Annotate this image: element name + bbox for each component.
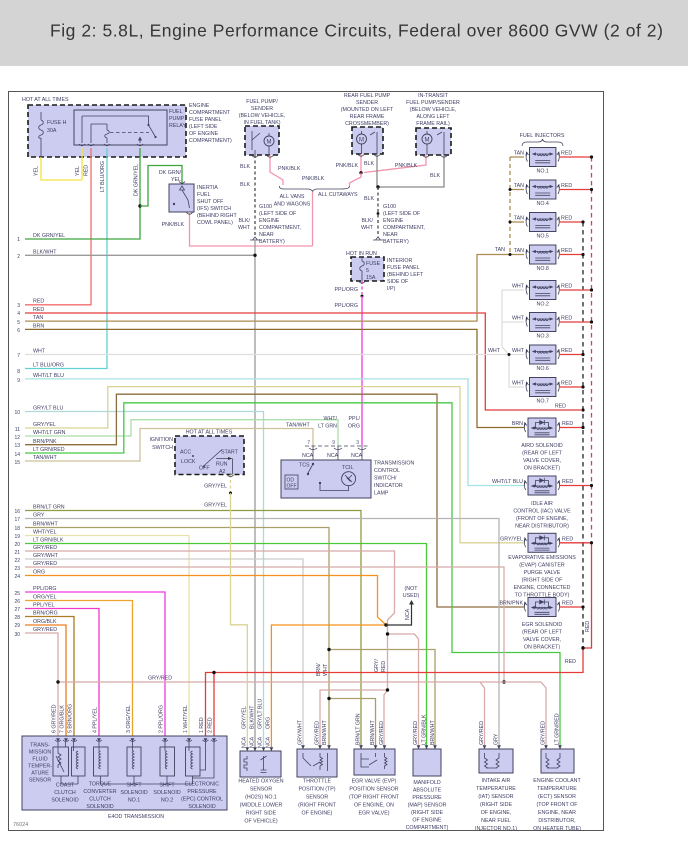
- svg-text:(RIGHT FRONT: (RIGHT FRONT: [298, 803, 337, 809]
- relay internals: coil and switch: [82, 116, 149, 143]
- svg-text:ORG/BLK: ORG/BLK: [33, 619, 57, 625]
- svg-text:NCA: NCA: [351, 453, 363, 459]
- svg-text:FUEL: FUEL: [169, 109, 183, 115]
- svg-text:28: 28: [14, 615, 20, 621]
- wire 29 ORG/BLK to transmission pin 7: [25, 625, 66, 742]
- svg-text:WHT: WHT: [323, 663, 329, 676]
- svg-text:NEAR DISTRIBUTOR): NEAR DISTRIBUTOR): [515, 524, 569, 530]
- svg-text:PNK/BLK: PNK/BLK: [302, 176, 325, 182]
- svg-text:FUEL PUMP/: FUEL PUMP/: [246, 99, 278, 105]
- svg-text:PPL/ORG: PPL/ORG: [33, 586, 57, 592]
- NCA not used stub: [386, 603, 412, 625]
- svg-text:OF ENGINE: OF ENGINE: [189, 131, 219, 137]
- svg-text:ENGINE COOLANT: ENGINE COOLANT: [533, 778, 581, 784]
- AIRD red out: [560, 427, 583, 429]
- svg-text:A2: A2: [219, 469, 226, 475]
- svg-text:TEMPERATURE: TEMPERATURE: [537, 786, 577, 792]
- svg-text:IN FUEL TANK): IN FUEL TANK): [244, 120, 281, 126]
- EGR solenoid red out: [560, 606, 583, 608]
- wire RED relay pin down: [25, 148, 91, 305]
- interior fuse panel box fuse 5: [351, 257, 384, 281]
- svg-text:(BEHIND LEFT: (BEHIND LEFT: [387, 272, 424, 278]
- svg-text:ALL VANS: ALL VANS: [280, 194, 305, 200]
- inertia switch internals: [180, 186, 190, 208]
- svg-text:START: START: [221, 450, 239, 456]
- fuel injectors brace: [522, 139, 563, 146]
- svg-text:3: 3: [356, 440, 359, 446]
- svg-text:NCA: NCA: [327, 453, 339, 459]
- junction dot pink: [359, 171, 362, 174]
- svg-text:WHT/YEL: WHT/YEL: [33, 530, 57, 536]
- svg-text:(REAR OF LEFT: (REAR OF LEFT: [522, 451, 562, 457]
- ORG junction dot: [384, 623, 387, 626]
- diagram border frame: [9, 92, 604, 831]
- junction dot black: [376, 185, 379, 188]
- svg-text:BRN/LT GRN: BRN/LT GRN: [356, 713, 362, 745]
- svg-text:M: M: [359, 138, 364, 144]
- wire 18 BRN/WHT signal return net: [25, 528, 435, 750]
- svg-text:RED: RED: [33, 299, 44, 305]
- svg-text:YEL: YEL: [34, 166, 40, 176]
- svg-text:RED: RED: [561, 284, 572, 290]
- connector arcs at component pins: [179, 155, 447, 477]
- E4OD transmission box: [22, 736, 227, 810]
- svg-text:LT GRN/RED: LT GRN/RED: [33, 447, 65, 453]
- svg-text:COMPARTMENT,: COMPARTMENT,: [383, 225, 425, 231]
- svg-text:ENGINE, NEAR: ENGINE, NEAR: [538, 810, 576, 816]
- header bar: [0, 0, 688, 66]
- svg-text:GRY/RED: GRY/RED: [315, 721, 321, 745]
- svg-text:YEL: YEL: [75, 166, 81, 176]
- IAC red out: [560, 485, 592, 487]
- svg-text:TEMPERATURE: TEMPERATURE: [476, 786, 516, 792]
- wire 7 WHT to injector WHT bus: [25, 354, 509, 356]
- sender float symbol: [252, 131, 260, 150]
- inertia fuel shut off switch box: [169, 184, 194, 212]
- svg-text:76024: 76024: [13, 822, 28, 828]
- svg-text:11: 11: [15, 427, 20, 433]
- TCIL lamp: [342, 472, 356, 486]
- svg-text:BLK/WHT: BLK/WHT: [33, 250, 57, 256]
- svg-text:TCIL: TCIL: [342, 465, 354, 471]
- GRY/YEL wire down to HO2S: [231, 493, 248, 751]
- TCS pin arcs: [309, 448, 366, 450]
- svg-text:ORG: ORG: [266, 717, 272, 729]
- svg-text:CLUTCH: CLUTCH: [54, 790, 76, 796]
- wire 21 GRY/RED to TP/EGR/MAP sensors: [25, 551, 419, 749]
- svg-text:ON BRACKET): ON BRACKET): [524, 466, 560, 472]
- wire 10 GRY/LT BLU to HO2S: [25, 412, 264, 752]
- svg-text:(MAP) SENSOR: (MAP) SENSOR: [408, 803, 447, 809]
- svg-text:WHT: WHT: [512, 284, 525, 290]
- svg-text:IGNITION: IGNITION: [149, 437, 173, 443]
- wire 22 GRY/WHT to TP sensor: [25, 559, 303, 749]
- GRY/RED junction dots: [386, 688, 389, 691]
- svg-text:INJECTOR NO.1): INJECTOR NO.1): [475, 826, 517, 832]
- svg-text:TEMPER-: TEMPER-: [28, 764, 52, 770]
- svg-text:15: 15: [14, 460, 20, 466]
- svg-text:PPL/: PPL/: [349, 416, 361, 422]
- wire 30 GRY/RED to transmission pin 6 and rail: [25, 633, 546, 749]
- svg-text:2: 2: [17, 254, 20, 260]
- svg-text:(IAT) SENSOR: (IAT) SENSOR: [478, 794, 513, 800]
- svg-text:3 ORG/YEL: 3 ORG/YEL: [126, 705, 132, 733]
- svg-text:SOLENOID: SOLENOID: [86, 804, 114, 810]
- svg-text:BRN/WHT: BRN/WHT: [33, 522, 58, 528]
- TCS lever: [308, 464, 313, 473]
- wire 11 GRY/YEL to EVAP valve: [25, 387, 524, 543]
- svg-text:MANIFOLD: MANIFOLD: [413, 780, 441, 786]
- svg-text:(NOT: (NOT: [405, 586, 419, 592]
- injector NO.4 red out: [559, 189, 592, 191]
- svg-text:RED: RED: [561, 316, 572, 322]
- svg-text:RED: RED: [84, 165, 90, 176]
- svg-text:13: 13: [14, 443, 20, 449]
- svg-text:GRY/RED: GRY/RED: [479, 721, 485, 745]
- svg-text:22: 22: [14, 558, 20, 564]
- svg-text:BRN/: BRN/: [316, 663, 322, 676]
- svg-text:RED: RED: [561, 183, 572, 189]
- svg-text:RED: RED: [562, 421, 573, 427]
- svg-text:5: 5: [366, 268, 369, 274]
- svg-text:WHT/LT GRN: WHT/LT GRN: [33, 430, 66, 436]
- svg-text:(HO2S) NO.1: (HO2S) NO.1: [245, 795, 277, 801]
- injector NO.7 red out: [559, 386, 583, 388]
- TP internals potentiometer: [303, 753, 328, 771]
- svg-text:TCS: TCS: [299, 463, 310, 469]
- svg-text:CONVERTER: CONVERTER: [83, 789, 116, 795]
- svg-text:FUSE: FUSE: [366, 261, 381, 267]
- svg-text:LT GRN/BLK: LT GRN/BLK: [422, 714, 428, 745]
- svg-text:GRY/YEL: GRY/YEL: [33, 422, 56, 428]
- svg-text:SENSOR: SENSOR: [250, 787, 273, 793]
- svg-text:BRN: BRN: [512, 421, 523, 427]
- svg-text:REAR FUEL PUMP: REAR FUEL PUMP: [344, 93, 391, 99]
- svg-text:IDLE AIR: IDLE AIR: [531, 501, 553, 507]
- left wire name labels: [33, 233, 66, 633]
- svg-text:7: 7: [307, 440, 310, 446]
- svg-text:LOCK: LOCK: [181, 459, 196, 465]
- in-transit sender box: [416, 128, 451, 155]
- injector NO.1: [526, 148, 560, 167]
- svg-text:ENGINE: ENGINE: [189, 103, 210, 109]
- svg-text:EVAPORATIVE EMISSIONS: EVAPORATIVE EMISSIONS: [508, 555, 576, 561]
- EGR sensor internals: [361, 753, 387, 769]
- svg-text:NO.5: NO.5: [537, 234, 549, 240]
- svg-text:RED: RED: [561, 216, 572, 222]
- svg-text:BLK: BLK: [430, 173, 440, 179]
- svg-text:25: 25: [14, 591, 20, 597]
- wire 28 BRN/ORG to transmission pin 5: [25, 617, 74, 743]
- svg-text:SHUT OFF: SHUT OFF: [197, 199, 224, 205]
- wire 4 RED to black bus via right side: [25, 313, 581, 410]
- ground symbol G100 left: [250, 237, 260, 240]
- svg-text:(FRONT OF ENGINE,: (FRONT OF ENGINE,: [516, 516, 568, 522]
- svg-text:TAN: TAN: [33, 315, 43, 321]
- in-transit motor M: [422, 134, 432, 144]
- fuse H symbol: [39, 112, 44, 157]
- svg-text:AIRD SOLENOID: AIRD SOLENOID: [521, 443, 563, 449]
- svg-text:10: 10: [14, 410, 20, 416]
- svg-text:ON HEATER TUBE): ON HEATER TUBE): [533, 826, 581, 832]
- ignition switch GRY/YEL output: [230, 475, 232, 494]
- svg-text:COMPARTMENT): COMPARTMENT): [406, 825, 449, 831]
- svg-text:POSITION (TP): POSITION (TP): [298, 787, 335, 793]
- svg-text:NO.6: NO.6: [537, 366, 549, 372]
- svg-text:TAN: TAN: [514, 151, 524, 157]
- svg-text:DK GRN/YEL: DK GRN/YEL: [134, 164, 140, 196]
- svg-text:WHT: WHT: [512, 381, 525, 387]
- svg-text:RED: RED: [562, 536, 573, 542]
- svg-text:GRY/RED: GRY/RED: [33, 561, 57, 567]
- wire 16 BRN/LT GRN to EGR position sensor: [25, 511, 361, 750]
- svg-text:8: 8: [17, 369, 20, 375]
- svg-text:GRY: GRY: [33, 513, 45, 519]
- svg-text:(EPC) CONTROL: (EPC) CONTROL: [181, 797, 223, 803]
- black dashed bus: [582, 222, 584, 648]
- svg-text:30: 30: [14, 632, 20, 638]
- svg-text:SOLENOID: SOLENOID: [120, 790, 148, 796]
- svg-text:OFF: OFF: [287, 484, 297, 490]
- transmission control switch box: [281, 460, 371, 498]
- svg-text:GRY/RED: GRY/RED: [413, 721, 419, 745]
- svg-text:PNK/BLK: PNK/BLK: [278, 166, 301, 172]
- svg-text:GRY/YEL: GRY/YEL: [204, 503, 227, 509]
- svg-text:SENDER: SENDER: [251, 106, 273, 112]
- svg-text:RUN: RUN: [216, 462, 228, 468]
- ignition switch dashed box: [175, 436, 244, 475]
- svg-text:CONTROL: CONTROL: [374, 468, 400, 474]
- svg-text:PRESSURE: PRESSURE: [187, 789, 217, 795]
- svg-text:(LEFT SIDE OF: (LEFT SIDE OF: [259, 211, 297, 217]
- injector NO.2: [526, 281, 560, 300]
- svg-text:LT GRN/RED: LT GRN/RED: [555, 713, 561, 745]
- svg-text:NEAR FUEL: NEAR FUEL: [481, 818, 511, 824]
- svg-text:M: M: [425, 138, 430, 144]
- injector NO.6 red out: [559, 354, 583, 356]
- svg-text:BATTERY): BATTERY): [383, 239, 409, 245]
- svg-text:LT GRN: LT GRN: [318, 424, 337, 430]
- svg-text:SENSOR: SENSOR: [306, 795, 329, 801]
- svg-text:RED: RED: [381, 661, 387, 672]
- svg-text:WHT: WHT: [512, 348, 525, 354]
- svg-text:FLUID: FLUID: [32, 757, 47, 763]
- svg-text:INTAKE AIR: INTAKE AIR: [482, 778, 511, 784]
- svg-text:ORG: ORG: [33, 570, 45, 576]
- injector NO.8: [526, 245, 560, 264]
- wire 20 LT GRN/BLK to MAP sensor: [25, 544, 427, 750]
- svg-text:(RIGHT SIDE: (RIGHT SIDE: [480, 802, 512, 808]
- svg-text:BATTERY): BATTERY): [259, 239, 285, 245]
- svg-text:GRY/LT BLU: GRY/LT BLU: [258, 699, 264, 729]
- svg-text:G100: G100: [383, 204, 396, 210]
- svg-text:SOLENOID: SOLENOID: [188, 804, 216, 810]
- svg-text:GRY/YEL: GRY/YEL: [204, 484, 227, 490]
- EVAP red out: [560, 542, 592, 544]
- svg-text:(IFS) SWITCH: (IFS) SWITCH: [197, 206, 231, 212]
- svg-text:SOLENOID: SOLENOID: [51, 798, 79, 804]
- svg-text:BRN/WHT: BRN/WHT: [322, 720, 328, 745]
- svg-text:LAMP: LAMP: [374, 491, 389, 497]
- svg-text:WHT: WHT: [512, 316, 525, 322]
- svg-text:RED: RED: [561, 151, 572, 157]
- junction dot on DK GRN/YEL: [138, 204, 141, 207]
- shift solenoid no2 element: [160, 747, 175, 776]
- relay pin chevrons: [79, 144, 143, 146]
- svg-text:GRY/RED: GRY/RED: [541, 721, 547, 745]
- svg-text:26: 26: [14, 599, 20, 605]
- wire 25 PPL/ORG to transmission pin 2: [25, 592, 165, 742]
- svg-text:NO.3: NO.3: [537, 334, 549, 340]
- svg-text:RED: RED: [562, 479, 573, 485]
- svg-text:TAN: TAN: [514, 248, 524, 254]
- svg-text:(RIGHT SIDE: (RIGHT SIDE: [411, 810, 443, 816]
- svg-text:PPL/ORG: PPL/ORG: [334, 287, 358, 293]
- svg-text:ATURE: ATURE: [31, 771, 49, 777]
- svg-text:(REAR OF LEFT: (REAR OF LEFT: [522, 630, 562, 636]
- wire 27 PPL/YEL to transmission pin 4: [25, 609, 99, 743]
- svg-text:(RIGHT SIDE OF: (RIGHT SIDE OF: [522, 578, 564, 584]
- svg-text:FUSE PANEL: FUSE PANEL: [387, 265, 420, 271]
- wire 23 GRY/RED to GRY/RED rail: [25, 567, 504, 682]
- svg-text:POSITION SENSOR: POSITION SENSOR: [349, 787, 398, 793]
- svg-text:OF ENGINE, ON: OF ENGINE, ON: [354, 803, 394, 809]
- wire DK GRN/YEL relay pin down to wire 1: [25, 148, 140, 239]
- svg-text:BRN/ORG: BRN/ORG: [33, 611, 58, 617]
- svg-text:SENDER: SENDER: [356, 100, 378, 106]
- TCS pin stubs into box: [313, 446, 362, 479]
- svg-text:6 GRY/RED: 6 GRY/RED: [52, 704, 58, 733]
- svg-text:2 RED: 2 RED: [208, 717, 214, 733]
- svg-text:NO.1: NO.1: [537, 169, 549, 175]
- rear sender motor M: [357, 134, 367, 144]
- svg-text:FUEL PUMP/SENDER: FUEL PUMP/SENDER: [406, 100, 460, 106]
- svg-text:BRN/WHT: BRN/WHT: [370, 720, 376, 745]
- svg-text:19: 19: [14, 534, 20, 540]
- svg-text:24: 24: [14, 574, 20, 580]
- svg-text:12: 12: [14, 435, 20, 441]
- svg-text:LT BLU/ORG: LT BLU/ORG: [33, 363, 64, 369]
- rear sender BLK wire: [376, 154, 378, 187]
- svg-text:EGR VALVE (EVP): EGR VALVE (EVP): [352, 779, 397, 785]
- svg-text:AND WAGONS: AND WAGONS: [274, 202, 311, 208]
- svg-text:GRY/WHT: GRY/WHT: [298, 719, 304, 745]
- junction dot ign gry/yel: [229, 492, 232, 495]
- svg-text:REAR FRAME: REAR FRAME: [350, 114, 385, 120]
- svg-text:HOT AT ALL TIMES: HOT AT ALL TIMES: [22, 97, 69, 103]
- svg-text:ON BRACKET): ON BRACKET): [524, 645, 560, 651]
- svg-text:29: 29: [14, 623, 20, 629]
- svg-text:BLK: BLK: [364, 161, 374, 167]
- svg-text:BLK: BLK: [240, 182, 250, 188]
- svg-text:FUSE PANEL: FUSE PANEL: [189, 117, 222, 123]
- svg-text:DISTRIBUTOR,: DISTRIBUTOR,: [538, 818, 575, 824]
- svg-text:(MOUNTED ON LEFT: (MOUNTED ON LEFT: [341, 107, 394, 113]
- svg-text:COAST: COAST: [56, 783, 75, 789]
- svg-text:NCA: NCA: [258, 736, 264, 748]
- BLK down to G100 right: [377, 187, 379, 237]
- svg-text:SHIFT: SHIFT: [126, 783, 142, 789]
- svg-text:NCA: NCA: [266, 736, 272, 748]
- svg-text:VALVE COVER,: VALVE COVER,: [523, 637, 561, 643]
- svg-text:TAN: TAN: [495, 247, 505, 253]
- svg-text:(EVAP) CANISTER: (EVAP) CANISTER: [519, 563, 565, 569]
- wire entry arrowheads into boxes: [56, 738, 562, 751]
- injector WHT bus: [502, 290, 524, 387]
- svg-text:INTERIOR: INTERIOR: [387, 258, 412, 264]
- fuse 5 symbol: [360, 257, 365, 281]
- svg-text:BRN/PNK: BRN/PNK: [499, 601, 523, 607]
- svg-text:RED: RED: [561, 248, 572, 254]
- svg-text:GRY/LT BLU: GRY/LT BLU: [33, 406, 63, 412]
- svg-text:NO.2: NO.2: [537, 302, 549, 308]
- EPC solenoid element: [186, 747, 201, 776]
- svg-text:16: 16: [14, 509, 20, 515]
- svg-text:2 PPL/ORG: 2 PPL/ORG: [159, 705, 165, 733]
- svg-text:LT BLU/ORG: LT BLU/ORG: [100, 161, 106, 192]
- DK GRN/YEL branch to inertia switch: [140, 166, 182, 207]
- svg-text:9: 9: [332, 440, 335, 446]
- vans/cutaways brace: [279, 186, 349, 192]
- TCIL lamp internal wire: [320, 483, 349, 491]
- svg-text:VALVE COVER,: VALVE COVER,: [523, 458, 561, 464]
- sender1 PNK/BLK wire: [270, 155, 283, 185]
- rear sender PNK/BLK: [360, 154, 362, 173]
- svg-text:NCA: NCA: [250, 736, 256, 748]
- svg-text:Fig 2: 5.8L, Engine Performanc: Fig 2: 5.8L, Engine Performance Circuits…: [50, 21, 663, 41]
- ECT internals: [546, 753, 560, 768]
- svg-text:HOT AT ALL TIMES: HOT AT ALL TIMES: [186, 430, 233, 436]
- svg-text:(TOP FRONT OF: (TOP FRONT OF: [537, 802, 579, 808]
- svg-text:M: M: [267, 140, 272, 146]
- svg-text:(LEFT SIDE: (LEFT SIDE: [189, 124, 218, 130]
- wire 14 LT GRN/RED to ECT sensor: [25, 403, 560, 749]
- svg-text:EGR SOLENOID: EGR SOLENOID: [522, 622, 562, 628]
- svg-text:CONTROL (IAC) VALVE: CONTROL (IAC) VALVE: [513, 509, 571, 515]
- svg-text:(BELOW VEHICLE,: (BELOW VEHICLE,: [410, 107, 457, 113]
- wire 19 WHT/YEL to transmission pin 1: [25, 536, 189, 743]
- PPL/ORG wire down to TCS pin 3: [361, 296, 363, 446]
- svg-text:GRY/WHT: GRY/WHT: [33, 553, 59, 559]
- junction dot wire23: [502, 680, 505, 683]
- svg-text:RIGHT SIDE: RIGHT SIDE: [246, 811, 277, 817]
- svg-text:PRESSURE: PRESSURE: [412, 795, 442, 801]
- fuel pump relay dashed panel box: [28, 105, 186, 157]
- svg-text:TAN: TAN: [514, 216, 524, 222]
- junction dot wire2: [253, 254, 256, 257]
- injector NO.1 red out: [559, 156, 592, 158]
- YEL wire from fuse: [41, 148, 82, 180]
- svg-text:NO.1: NO.1: [128, 798, 140, 804]
- svg-text:E4OD TRANSMISSION: E4OD TRANSMISSION: [108, 814, 164, 820]
- sender1 BLK wire to ground: [254, 155, 256, 237]
- svg-text:GRY/RED: GRY/RED: [379, 721, 385, 745]
- EGR solenoid: [524, 598, 560, 617]
- svg-text:SWITCH: SWITCH: [152, 445, 173, 451]
- injector TAN dashed bus: [509, 157, 511, 255]
- svg-text:COMPARTMENT: COMPARTMENT: [189, 110, 231, 116]
- svg-text:1 RED: 1 RED: [199, 717, 205, 733]
- svg-text:MISSION: MISSION: [29, 750, 52, 756]
- svg-text:DK GRN/YEL: DK GRN/YEL: [33, 233, 65, 239]
- injector NO.8 red out: [559, 254, 583, 256]
- svg-text:ALL CUTAWAYS: ALL CUTAWAYS: [318, 192, 358, 198]
- IAT sensor box: [479, 749, 513, 773]
- svg-text:PPL/ORG: PPL/ORG: [334, 303, 358, 309]
- svg-text:PUMP: PUMP: [169, 116, 185, 122]
- svg-text:GRY: GRY: [494, 733, 500, 745]
- OD OFF box: [285, 475, 298, 489]
